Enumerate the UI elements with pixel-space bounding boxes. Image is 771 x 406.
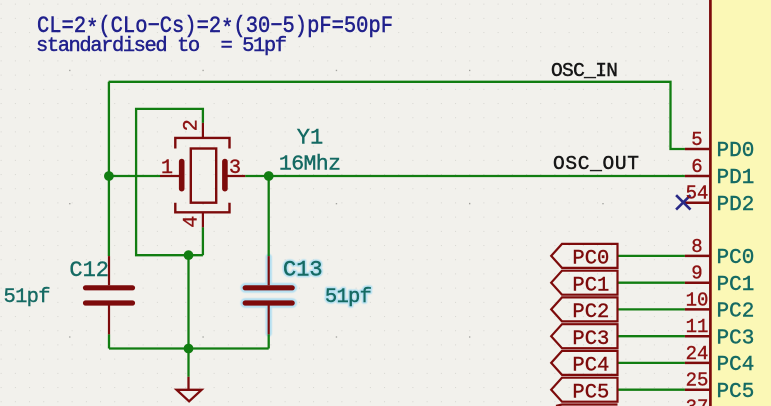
svg-text:OSC_IN: OSC_IN [551,60,618,82]
svg-text:2: 2 [180,119,203,131]
svg-text:51pf: 51pf [4,286,51,309]
svg-text:PC3: PC3 [572,328,609,351]
svg-text:9: 9 [691,263,702,285]
svg-text:54: 54 [686,183,709,205]
svg-text:5: 5 [691,129,702,151]
svg-text:PC5: PC5 [572,382,609,405]
svg-text:Y1: Y1 [297,126,323,151]
svg-text:PC2: PC2 [717,301,755,324]
svg-text:10: 10 [686,289,709,311]
svg-text:25: 25 [686,370,709,392]
svg-text:OSC_OUT: OSC_OUT [553,153,639,175]
svg-text:PC3: PC3 [717,327,755,350]
svg-text:11: 11 [686,316,709,338]
svg-text:PD0: PD0 [717,140,755,163]
svg-text:C12: C12 [69,258,109,283]
svg-text:PC2: PC2 [572,301,609,324]
svg-text:1: 1 [161,157,173,180]
svg-text:PC1: PC1 [572,275,609,298]
svg-text:PC5: PC5 [717,381,755,404]
svg-text:PC0: PC0 [717,247,755,270]
svg-text:C13: C13 [283,258,323,283]
svg-text:3: 3 [229,157,241,180]
svg-text:6: 6 [691,156,702,178]
svg-text:PD1: PD1 [717,167,755,190]
svg-text:24: 24 [686,343,709,365]
svg-text:PC4: PC4 [572,355,609,378]
svg-text:PC1: PC1 [717,274,755,297]
svg-text:51pf: 51pf [325,286,372,309]
svg-text:37: 37 [686,396,709,406]
svg-text:16Mhz: 16Mhz [279,152,341,176]
svg-text:PD2: PD2 [717,194,755,217]
svg-text:PC4: PC4 [717,354,755,377]
svg-text:standardised to = 51pf: standardised to = 51pf [36,35,287,58]
svg-text:8: 8 [691,236,702,258]
svg-text:4: 4 [180,216,203,228]
svg-text:PC0: PC0 [572,248,609,271]
